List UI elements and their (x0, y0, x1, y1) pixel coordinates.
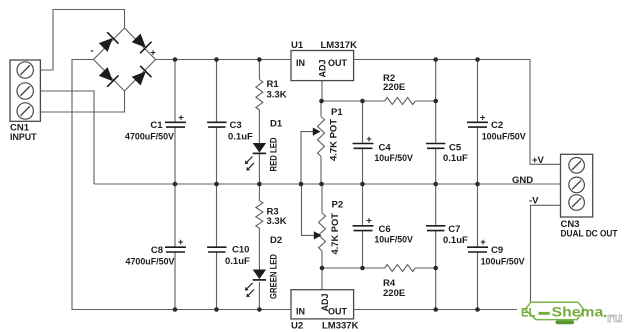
wire: P2 wiper to ground rail (302, 184, 316, 235)
wire: CN1 terminal1 up and over to bridge top (40, 10, 124, 71)
capacitor C6 10uF/50V (353, 225, 374, 227)
svg-text:0.1uF: 0.1uF (228, 132, 253, 143)
wire: C1 leads (174, 60, 176, 185)
wire: bridge plus corner to U1 IN (+ rail) (156, 59, 292, 61)
bridge rectifier diamond (94, 28, 156, 91)
svg-text:C7: C7 (448, 224, 460, 235)
regulator U2 LM337K box (291, 290, 354, 319)
connector CN1 body (10, 60, 40, 121)
wire: U2 ADJ node to R4 left (322, 267, 385, 269)
svg-text:10uF/50V: 10uF/50V (374, 234, 413, 245)
svg-text:100uF/50V: 100uF/50V (481, 256, 526, 267)
svg-text:+: + (480, 113, 486, 124)
wire: CN1 terminal3 to bridge bottom (40, 90, 124, 112)
wire: R2 right to OUT vertical (415, 100, 436, 102)
wire: C8 leads (174, 184, 176, 310)
svg-text:GND: GND (512, 175, 533, 186)
svg-text:C6: C6 (379, 224, 391, 235)
svg-text:C8: C8 (151, 245, 163, 256)
junction at (175,309.5) (173, 307, 178, 312)
wire: C10 leads (216, 184, 218, 310)
svg-text:C5: C5 (449, 143, 462, 154)
svg-text:IN: IN (296, 307, 305, 317)
svg-text:+V: +V (532, 155, 545, 166)
capacitor C9 100uF/50V (467, 246, 488, 248)
junction at (259.4,184) (257, 182, 262, 187)
svg-text:0.1uF: 0.1uF (225, 256, 250, 267)
svg-text:C10: C10 (232, 245, 249, 256)
LED D1 RED (253, 143, 266, 153)
svg-text:D1: D1 (270, 119, 283, 130)
svg-text:EL: EL (521, 306, 536, 320)
svg-text:INPUT: INPUT (10, 132, 37, 143)
connector CN3 body (561, 154, 593, 217)
junction at (435.7,268) (433, 266, 438, 271)
CN3 screw terminal at y=202.5 (569, 195, 585, 211)
wire: U1 OUT rail to +V terminal (354, 60, 561, 165)
svg-text:+: + (178, 237, 184, 248)
svg-text:RED LED: RED LED (269, 137, 280, 171)
svg-text:220E: 220E (383, 288, 405, 299)
wire: C3 leads (216, 60, 218, 185)
wire: C6 leads (362, 184, 364, 268)
resistor R4 220E (385, 265, 416, 272)
junction at (216.5,184) (214, 182, 219, 187)
svg-text:4.7K POT: 4.7K POT (330, 213, 341, 255)
junction at (322,268) (320, 266, 325, 271)
svg-text:C4: C4 (379, 143, 392, 154)
junction at (435.7,59.5) (433, 57, 438, 62)
wire: R4 right to vertical (415, 267, 436, 269)
wire: C5 leads (435, 101, 437, 184)
wire: R1 leads / D1 connection (258, 60, 260, 185)
junction at (477.5,309.5) (475, 307, 480, 312)
svg-text:P1: P1 (331, 107, 343, 118)
capacitor C8 4700uF/50V (165, 246, 186, 248)
svg-text:C1: C1 (150, 120, 163, 131)
wire: P1 leads (320, 101, 322, 184)
svg-text:0.1uF: 0.1uF (443, 153, 468, 164)
CN3 screw terminal at y=165.3 (569, 158, 585, 174)
wire: CN1 terminal2 (center tap) to ground rail corner (40, 91, 94, 184)
capacitor C7 0.1uF (426, 225, 445, 227)
junction at (435.7,101) (433, 99, 438, 104)
wire: R3 leads / D2 connection (258, 184, 260, 310)
CN1 screw terminal at y=70 (17, 62, 33, 78)
wire: R4 node down to -V rail (435, 268, 437, 310)
svg-text:D2: D2 (270, 235, 282, 246)
CN3 screw terminal at y=184.9 (569, 177, 585, 193)
wire: OUT vertical x=435.7 top rail to R2 node (435, 60, 437, 102)
svg-text:0.1uF: 0.1uF (443, 235, 468, 246)
svg-text:+: + (366, 215, 372, 226)
junction at (477.5,184) (475, 182, 480, 187)
resistor R2 220E (385, 98, 416, 105)
diode bridge bottom-left (98, 66, 119, 87)
wire: P2 leads to U2 ADJ (321, 184, 323, 290)
capacitor C5 0.1uF (426, 143, 445, 145)
svg-text:100uF/50V: 100uF/50V (482, 132, 527, 143)
junction at (175,184) (173, 182, 178, 187)
resistor R1 3.3K (256, 79, 263, 110)
svg-text:OUT: OUT (328, 58, 348, 68)
wire: C7 leads (435, 184, 437, 268)
wire: U2 OUT rail to -V terminal (354, 205, 561, 309)
svg-text:P2: P2 (332, 200, 344, 211)
junction at (435.7,309.5) (433, 307, 438, 312)
wire: C9 leads (477, 184, 479, 310)
svg-text:4700uF/50V: 4700uF/50V (125, 132, 175, 143)
svg-text:+: + (150, 48, 156, 59)
diode bridge top-left (98, 32, 119, 53)
junction at (477.5,59.5) (475, 57, 480, 62)
svg-text:C9: C9 (491, 245, 503, 256)
svg-text:+: + (366, 134, 372, 145)
junction at (362.5,101) (360, 99, 365, 104)
wire: bridge minus corner to left rail down to bottom negative rail (72, 60, 291, 310)
svg-text:3.3K: 3.3K (267, 90, 287, 101)
junction at (321.5,101) (319, 99, 324, 104)
svg-text:GREEN LED: GREEN LED (269, 254, 280, 299)
svg-text:U1: U1 (291, 40, 304, 51)
svg-text:-: - (90, 46, 93, 57)
junction at (321.5,184) (319, 182, 324, 187)
wire: P1 wiper to ground rail (301, 132, 315, 184)
LED D2 GREEN (253, 270, 266, 280)
junction at (216.5,309.5) (214, 307, 219, 312)
svg-text:220E: 220E (383, 82, 405, 93)
junction at (175,59.5) (173, 57, 178, 62)
svg-text:LM337K: LM337K (322, 321, 359, 332)
diode bridge bottom-right (131, 66, 152, 87)
junction at (259.4,309.5) (257, 307, 262, 312)
svg-text:4.7K POT: 4.7K POT (329, 119, 340, 161)
wire: C4 leads (362, 101, 364, 184)
junction at (362.5,184) (360, 182, 365, 187)
junction at (259.4,59.5) (257, 57, 262, 62)
watermark logo el-shema.ru (517, 302, 624, 327)
svg-text:U2: U2 (291, 320, 303, 331)
svg-text:OUT: OUT (328, 307, 348, 317)
junction at (216.5,59.5) (214, 57, 219, 62)
junction at (435.7,184) (433, 182, 438, 187)
svg-text:3.3K: 3.3K (267, 216, 287, 227)
junction at (362.5,268) (360, 266, 365, 271)
wire: ADJ node to R2 left (322, 100, 385, 102)
svg-text:Shema: Shema (552, 305, 604, 320)
CN1 screw terminal at y=91 (17, 83, 33, 99)
svg-text:4700uF/50V: 4700uF/50V (126, 256, 176, 267)
svg-text:C3: C3 (230, 120, 242, 131)
capacitor C2 100uF/50V (467, 121, 488, 123)
capacitor C1 4700uF/50V (165, 121, 186, 123)
svg-text:ADJ: ADJ (320, 293, 330, 311)
svg-text:10uF/50V: 10uF/50V (374, 153, 413, 164)
capacitor C3 0.1uF (207, 121, 226, 123)
svg-text:IN: IN (296, 58, 305, 68)
diode bridge top-right (131, 32, 152, 53)
op-amp-style regulator U1 LM317K box (291, 51, 354, 81)
svg-text:-V: -V (529, 196, 539, 207)
svg-text:DUAL DC OUT: DUAL DC OUT (561, 229, 618, 239)
svg-text:+: + (178, 113, 184, 124)
svg-text:R1: R1 (267, 79, 280, 90)
resistor R3 3.3K (256, 201, 263, 229)
svg-text:+: + (480, 237, 486, 248)
svg-text:ru: ru (607, 310, 623, 325)
svg-text:C2: C2 (491, 120, 503, 131)
potentiometer P2 4.7K POT (319, 213, 326, 251)
svg-text:ADJ: ADJ (318, 59, 328, 77)
potentiometer P1 4.7K POT (318, 116, 325, 156)
wire: ground rail GND (94, 183, 561, 185)
wire: C2 leads (477, 60, 479, 185)
CN1 screw terminal at y=111 (17, 103, 33, 119)
wire: U1 ADJ pin down (321, 81, 323, 101)
svg-text:LM317K: LM317K (321, 40, 358, 51)
capacitor C4 10uF/50V (353, 143, 374, 145)
capacitor C10 0.1uF (207, 246, 226, 248)
junction at (301,184) (299, 182, 304, 187)
